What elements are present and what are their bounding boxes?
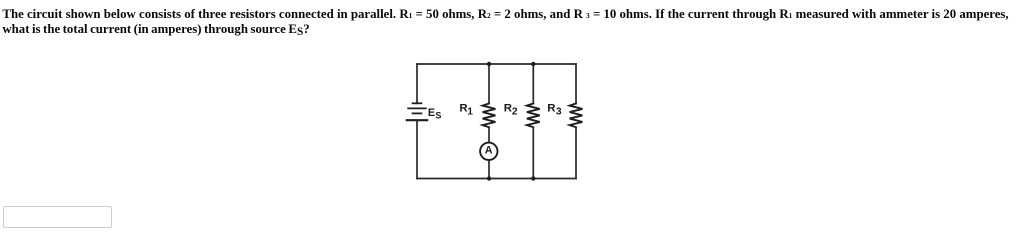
label R3 (547, 102, 562, 117)
question text line 1 (2, 7, 1008, 23)
svg-text:R: R (504, 102, 512, 114)
svg-text:E: E (428, 107, 435, 119)
resistor R2 (527, 104, 540, 128)
battery Es (407, 103, 427, 120)
label R2 (504, 102, 518, 117)
wire right top (575, 64, 577, 104)
wire bottom (417, 178, 576, 180)
wire right bottom (575, 127, 577, 178)
wire R2 top (532, 64, 534, 104)
junction dot top R2 (531, 62, 535, 66)
svg-text:A: A (485, 145, 493, 157)
svg-text:2: 2 (512, 107, 518, 118)
label R1 (459, 102, 473, 117)
wire left top (battery to top rail) (416, 64, 418, 103)
junction dot bottom R1 (487, 176, 491, 180)
junction dot top R1 (487, 62, 491, 66)
wire R1 middle (488, 127, 490, 142)
question text line 2 (2, 22, 309, 38)
wire R2 bottom (532, 127, 534, 178)
junction dot bottom R2 (531, 176, 535, 180)
wire top (417, 63, 576, 65)
wire R1 bottom (488, 160, 490, 179)
resistor R3 (570, 104, 583, 128)
svg-text:3: 3 (556, 107, 562, 118)
svg-text:S: S (435, 111, 441, 121)
answer input box (3, 206, 112, 228)
label Es (428, 107, 442, 121)
wire left bottom (battery to bottom rail) (416, 120, 418, 178)
resistor R1 (483, 104, 496, 128)
svg-text:R: R (547, 102, 555, 114)
ammeter A (480, 143, 497, 160)
wire R1 top (488, 64, 490, 104)
svg-text:1: 1 (467, 107, 473, 118)
